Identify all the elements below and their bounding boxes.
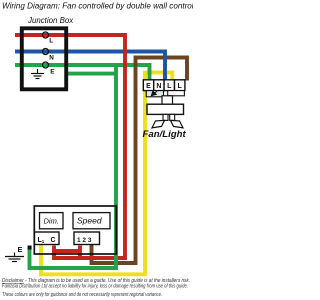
ground symbol in junction box [31, 69, 44, 79]
fan earth clamp box [146, 91, 163, 97]
fan blade right [171, 120, 184, 128]
terminal N circle [43, 49, 49, 55]
fan legs [163, 114, 168, 120]
wire yellow (switched live: dimmer L to fan, full loop) [41, 73, 172, 275]
svg-text:Wiring Diagram: Fan controlled: Wiring Diagram: Fan controlled by double… [2, 2, 193, 11]
svg-text:L: L [167, 83, 172, 90]
wire green earth E from junction box to fan E terminal [15, 65, 150, 81]
wire blue neutral from junction box to fan N [15, 52, 165, 81]
svg-text:Fan/Light: Fan/Light [143, 129, 187, 140]
fan body bar [147, 104, 184, 114]
terminal E circle [43, 62, 49, 68]
node E at switch [28, 246, 32, 250]
svg-text:Junction Box: Junction Box [27, 16, 74, 25]
svg-text:Dim.: Dim. [44, 216, 59, 225]
wire green earth branch to switch E [30, 64, 117, 268]
dimmer terminal box L C [35, 232, 60, 245]
ground symbol at switch [5, 253, 24, 262]
svg-text:1 2 3: 1 2 3 [77, 237, 92, 244]
speed terminal box 1 2 3 [74, 232, 100, 245]
svg-text:E: E [146, 83, 151, 90]
terminal L circle [43, 32, 49, 38]
earth clamp arrow [151, 91, 157, 95]
wire red link C to 1 [54, 246, 80, 259]
speed switch box [73, 213, 110, 229]
svg-text:E: E [18, 245, 23, 254]
fan connector box under L terminals [168, 91, 185, 96]
fan terminal block ENLL [143, 80, 185, 91]
svg-text:These colours are only for gui: These colours are only for guidance and … [2, 292, 162, 298]
svg-text:L: L [178, 83, 183, 90]
junction box [22, 28, 66, 89]
svg-text:N: N [156, 83, 161, 90]
terminal letters E N L L [146, 83, 182, 90]
fan blade left [152, 120, 165, 128]
svg-text:Fantasia Distribution Ltd acce: Fantasia Distribution Ltd accept no liab… [2, 283, 188, 289]
svg-text:C: C [51, 237, 56, 244]
wire red live from junction box to switch C and 1 [15, 35, 125, 258]
svg-text:N: N [49, 55, 54, 62]
fan stem upper [162, 96, 173, 104]
wall switch outer box [34, 206, 116, 254]
svg-text:E: E [50, 69, 54, 76]
dimmer switch box [40, 213, 64, 229]
wire brown (speed switch 3 to fan L) [92, 58, 188, 264]
svg-text:Speed: Speed [77, 216, 102, 226]
svg-text:L: L [49, 38, 53, 45]
wire green lower loop segment [65, 72, 116, 76]
